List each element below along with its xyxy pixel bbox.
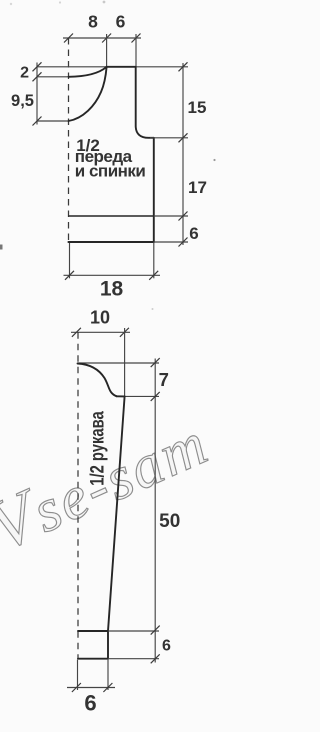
svg-text:7: 7 xyxy=(159,369,169,390)
svg-text:1/2 рукава: 1/2 рукава xyxy=(87,411,108,486)
svg-text:17: 17 xyxy=(188,178,207,197)
svg-text:10: 10 xyxy=(90,308,110,328)
svg-text:15: 15 xyxy=(188,98,207,117)
svg-text:9,5: 9,5 xyxy=(11,92,34,110)
svg-text:6: 6 xyxy=(162,638,171,655)
svg-text:18: 18 xyxy=(100,278,124,301)
svg-text:6: 6 xyxy=(189,224,198,243)
svg-text:8: 8 xyxy=(88,12,98,32)
svg-text:и спинки: и спинки xyxy=(75,161,146,180)
svg-text:2: 2 xyxy=(20,65,29,82)
svg-text:50: 50 xyxy=(159,511,180,532)
svg-text:Vse-sam: Vse-sam xyxy=(0,400,219,567)
svg-text:6: 6 xyxy=(116,12,126,32)
svg-text:6: 6 xyxy=(84,691,96,716)
